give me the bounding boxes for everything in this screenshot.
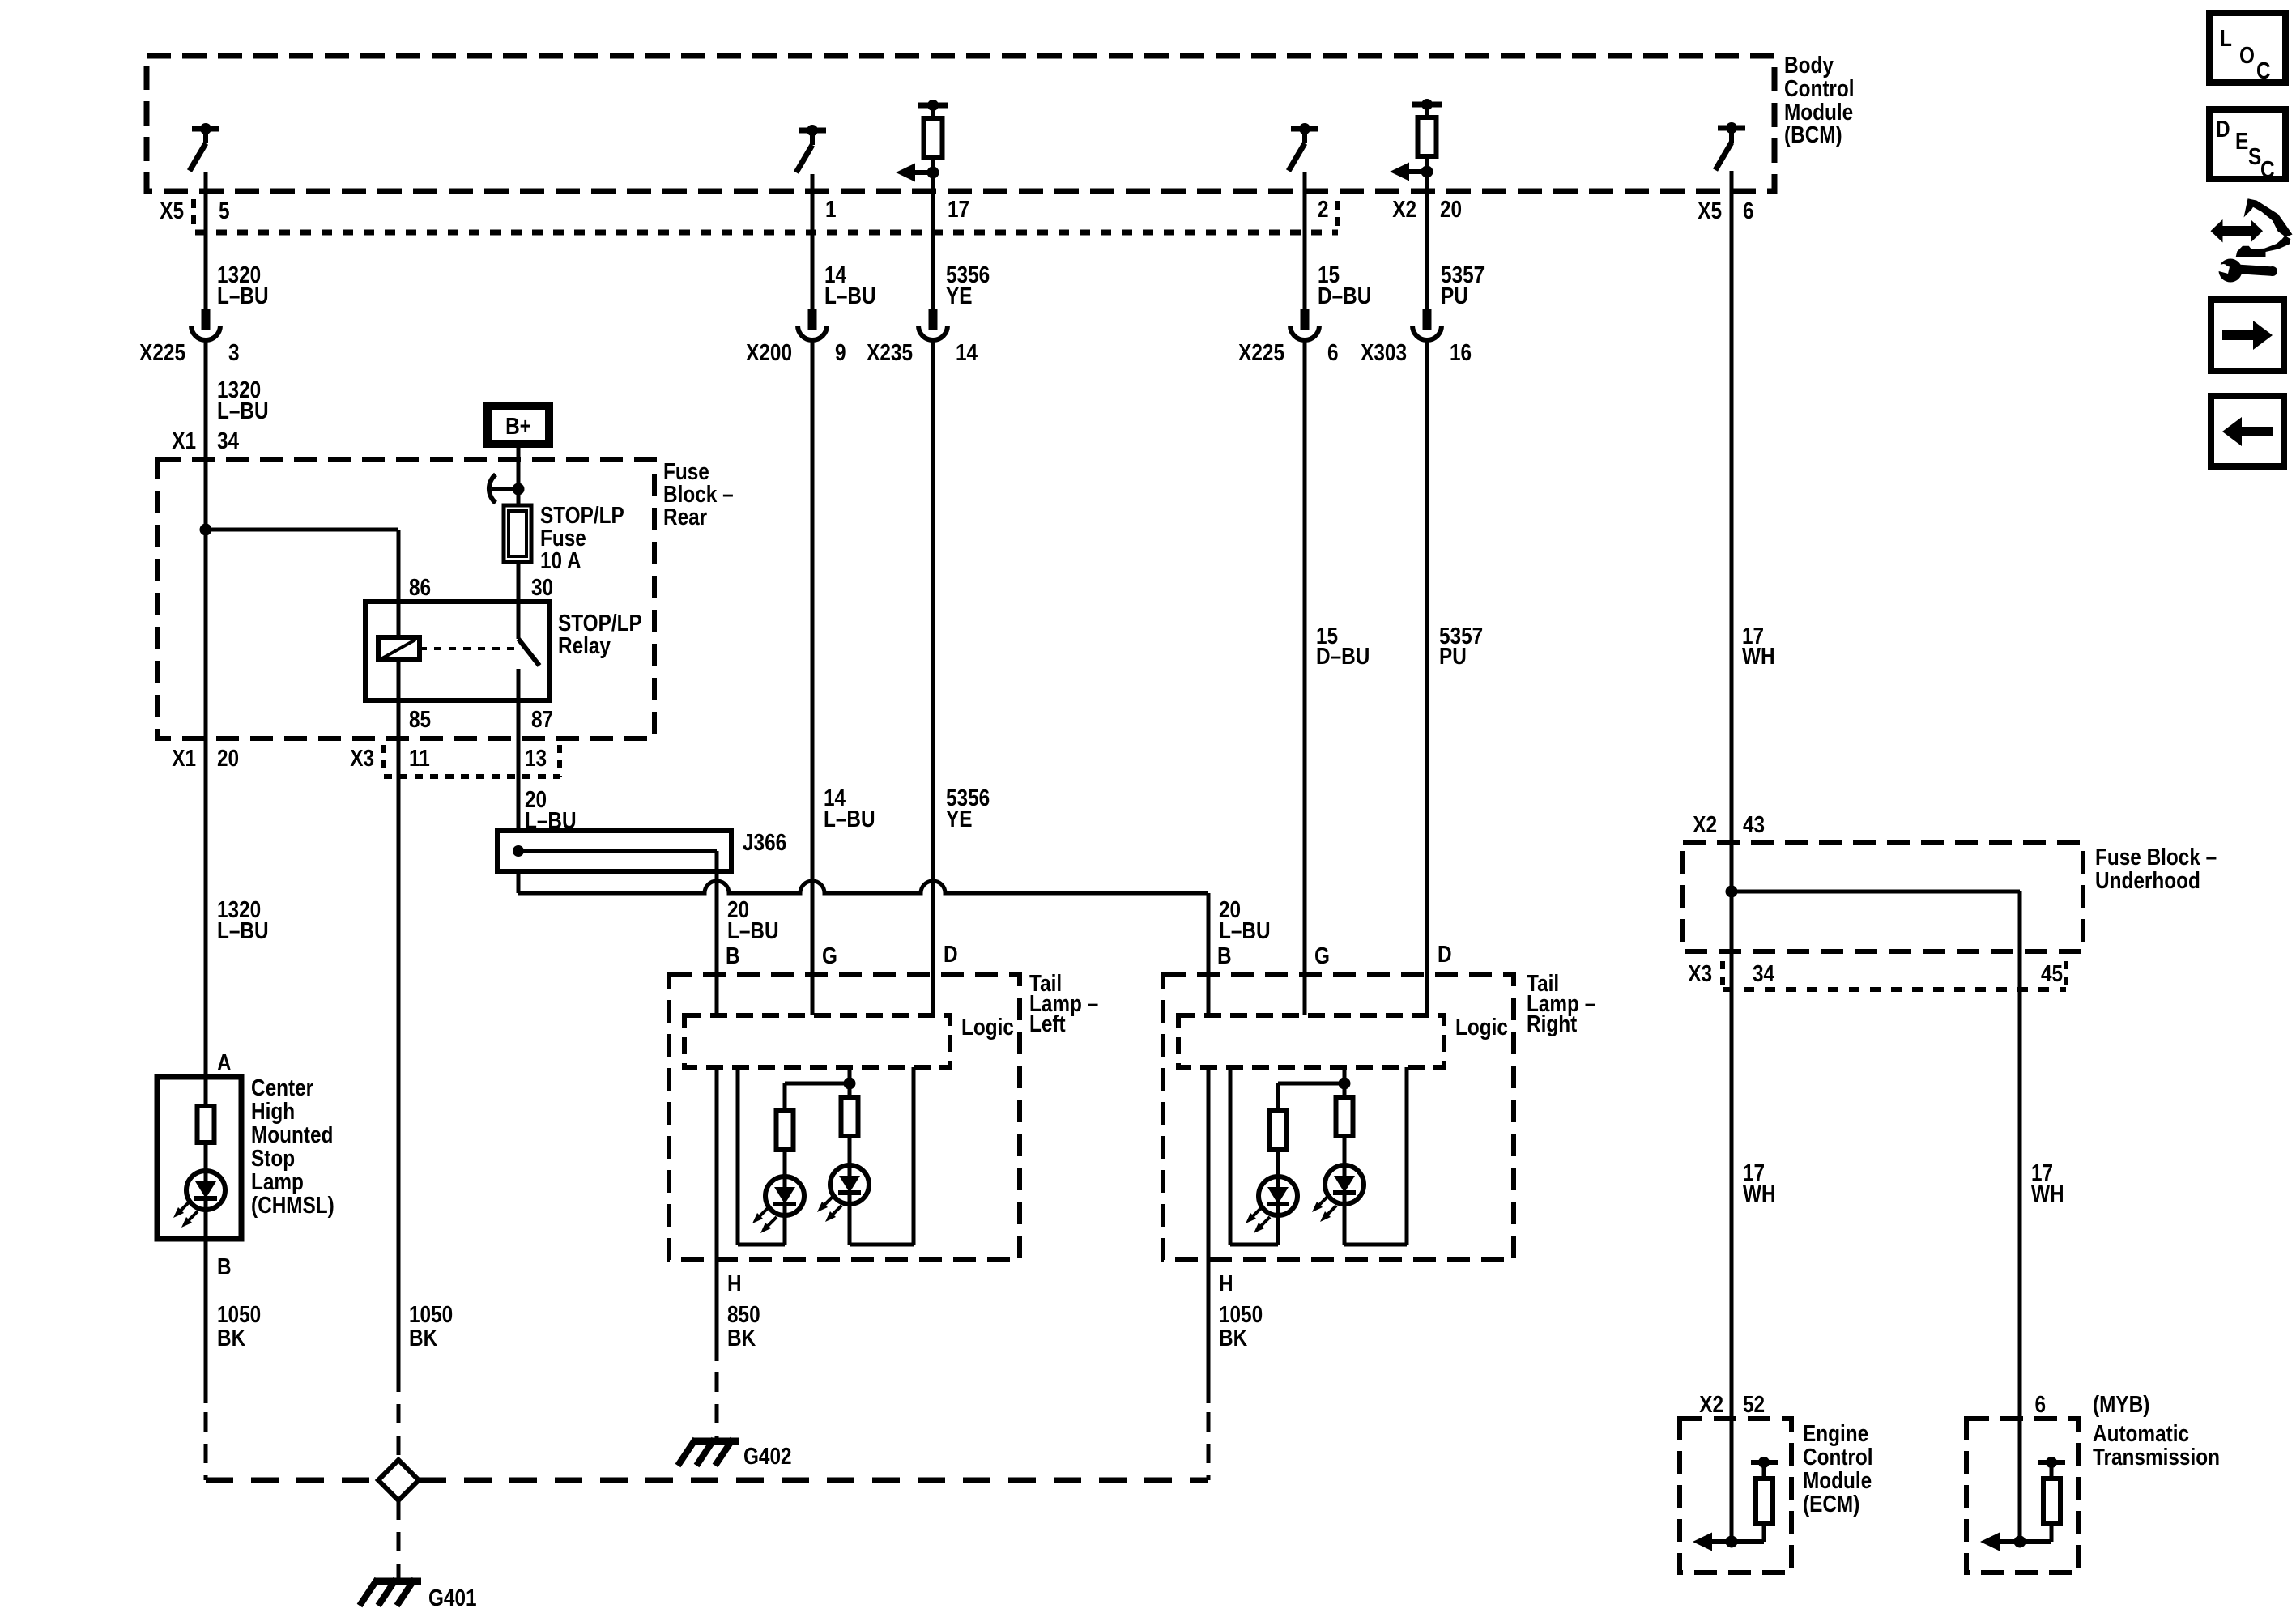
svg-text:Control: Control — [1784, 75, 1855, 101]
wire feed to fuse — [517, 460, 521, 505]
ECM name label — [1803, 1420, 1873, 1517]
wire 14 L-BU X200-9 to left lamp G — [811, 340, 815, 1015]
svg-text:(BCM): (BCM) — [1784, 121, 1842, 147]
wire labels 850 BK — [727, 1301, 760, 1351]
svg-text:L–BU: L–BU — [1219, 917, 1271, 943]
wire labels 1320 L-BU — [217, 262, 269, 309]
switch (stop lamp right control, BCM pin 2) — [1289, 123, 1318, 171]
wire labels 15 D-BU (second) — [1316, 623, 1370, 669]
svg-text:45: 45 — [2041, 960, 2063, 986]
svg-text:J366: J366 — [743, 829, 786, 855]
BCM connector face dotted line — [195, 230, 1338, 236]
wire down to relay 86 — [397, 530, 401, 602]
switch (stop lamp left control, BCM pin 1) — [796, 125, 826, 172]
svg-text:6: 6 — [1327, 339, 1339, 365]
svg-text:52: 52 — [1743, 1391, 1765, 1417]
wire relay 85 to ground (1050 BK) — [397, 700, 401, 1372]
svg-text:1050: 1050 — [409, 1301, 453, 1327]
wire 20 L-BU down to right lamp pin B — [1207, 893, 1211, 1015]
LED CHMSL — [173, 1171, 225, 1228]
svg-text:L–BU: L–BU — [727, 917, 779, 943]
svg-text:YE: YE — [946, 283, 972, 309]
svg-text:L–BU: L–BU — [217, 917, 269, 943]
wire labels 20 L-BU (right lamp B) — [1219, 896, 1271, 943]
svg-text:Center: Center — [251, 1074, 314, 1100]
icon arrow right box — [2211, 300, 2284, 371]
ECM internal pull-up and receiver arrow — [1693, 1457, 1778, 1551]
transmission internal pull-up and receiver arrow — [1980, 1457, 2065, 1551]
svg-text:X200: X200 — [746, 339, 792, 365]
svg-text:X1: X1 — [172, 428, 196, 453]
Fuse Block - Underhood label — [2095, 844, 2217, 893]
svg-text:E: E — [2235, 128, 2248, 154]
junction node (stop signal to relay coil) — [200, 524, 212, 536]
svg-text:14: 14 — [956, 339, 978, 365]
svg-text:WH: WH — [2031, 1181, 2064, 1206]
svg-text:(ECM): (ECM) — [1803, 1491, 1859, 1517]
svg-text:X225: X225 — [1238, 339, 1284, 365]
Fuse Block - Underhood dashed box — [1683, 843, 2083, 951]
wire relay 87 to J366 (20 L-BU) — [517, 700, 521, 831]
LED 2 tail lamp right — [1312, 1165, 1364, 1222]
tail lamp left pin B stub — [715, 893, 719, 1015]
svg-text:(MYB): (MYB) — [2093, 1391, 2149, 1417]
tail lamp right outer box — [1163, 974, 1514, 1260]
svg-text:BK: BK — [1219, 1325, 1248, 1351]
svg-text:13: 13 — [525, 745, 547, 771]
svg-text:L–BU: L–BU — [824, 283, 876, 309]
dashed wire right lamp to ground bus — [1207, 1412, 1211, 1480]
svg-text:Transmission: Transmission — [2093, 1444, 2220, 1470]
svg-text:Control: Control — [1803, 1444, 1873, 1470]
icon DESC box — [2209, 109, 2285, 182]
svg-text:Module: Module — [1803, 1467, 1872, 1493]
tail lamp left outer box — [669, 974, 1020, 1260]
splice pack J366 box — [497, 831, 731, 871]
wire labels 5357 PU — [1441, 262, 1485, 309]
STOP/LP Relay box — [365, 602, 549, 700]
wire labels 5356 YE — [946, 262, 990, 309]
switch (brake apply, BCM pin X5-5) — [190, 123, 219, 171]
dashed wire diamond to G401 — [397, 1500, 401, 1579]
wire labels 17 WH (trans branch) — [2031, 1160, 2064, 1206]
wire 5357 PU X303-16 to right lamp D — [1425, 340, 1429, 1015]
dashed wire relay-85 to splice diamond — [397, 1372, 401, 1457]
svg-text:B: B — [1217, 943, 1232, 968]
svg-text:20: 20 — [1440, 196, 1462, 222]
svg-text:Fuse Block –: Fuse Block – — [2095, 844, 2217, 870]
relay pin labels 85 / 87 — [409, 706, 553, 732]
stop lamp feed wire 20 L-BU to right lamp (hops) — [518, 881, 1208, 893]
transmission pin 6 label — [2034, 1391, 2149, 1417]
svg-text:A: A — [217, 1049, 232, 1075]
svg-text:3: 3 — [228, 339, 240, 365]
wire labels 17 WH (upper) — [1742, 623, 1775, 669]
svg-text:Relay: Relay — [558, 632, 611, 658]
svg-text:1: 1 — [825, 196, 837, 222]
wire fuse to relay pin 30 — [517, 562, 521, 602]
svg-text:X3: X3 — [350, 745, 374, 771]
underhood X3 connector dotted line — [1723, 961, 2066, 989]
J366 internal bus — [513, 845, 717, 857]
CHMSL wire+resistor+LED — [198, 738, 215, 1239]
wire BCM pin1 to X200-9 (14 L-BU) — [811, 174, 815, 311]
wire labels 1050 BK (CHMSL) — [217, 1301, 261, 1351]
connector X225 pin 3 — [191, 309, 220, 340]
svg-text:Engine: Engine — [1803, 1420, 1868, 1446]
svg-text:Right: Right — [1527, 1011, 1577, 1036]
LED 1 tail lamp left — [752, 1177, 804, 1233]
tail lamp right pin B stub — [1207, 893, 1211, 1015]
wire labels 5356 YE (second) — [946, 785, 990, 832]
relay coil-to-switch dashed link — [420, 647, 517, 650]
svg-text:G402: G402 — [743, 1443, 792, 1469]
svg-text:L–BU: L–BU — [217, 283, 269, 309]
ground G402 — [678, 1439, 739, 1466]
svg-text:X303: X303 — [1361, 339, 1407, 365]
Fuse Block - Rear dashed box — [158, 460, 654, 738]
icon arrow left box — [2211, 396, 2284, 466]
svg-text:X225: X225 — [139, 339, 185, 365]
Automatic Transmission dashed box — [1966, 1419, 2078, 1572]
dashed wire to G402 — [715, 1372, 719, 1439]
Tail Lamp - Left name label — [1029, 970, 1098, 1036]
svg-text:850: 850 — [727, 1301, 760, 1327]
svg-text:X2: X2 — [1392, 196, 1416, 222]
svg-text:PU: PU — [1439, 643, 1467, 669]
wire BCM X5-5 to X225-3 (1320 L-BU) — [204, 172, 208, 311]
hot at all times feed symbol — [489, 474, 525, 503]
svg-text:34: 34 — [217, 428, 239, 453]
svg-text:6: 6 — [1743, 198, 1754, 223]
connector X3 pin labels — [350, 745, 547, 771]
wire 5356 YE X235-14 to left lamp D — [931, 340, 935, 1015]
wire labels 20 L-BU (below X3-13) — [525, 786, 577, 833]
wire BCM X2-20 to X303-16 (5357 PU) — [1425, 172, 1429, 311]
wire J366 out bottom — [517, 871, 521, 893]
svg-text:Body: Body — [1784, 52, 1834, 78]
wire labels 14 L-BU — [824, 262, 876, 309]
STOP/LP Relay label — [558, 610, 642, 658]
svg-text:86: 86 — [409, 574, 431, 600]
svg-text:X3: X3 — [1688, 960, 1712, 986]
svg-text:43: 43 — [1743, 811, 1765, 837]
svg-text:X2: X2 — [1693, 811, 1717, 837]
connector X3-34 / X3-45 labels — [1688, 960, 2063, 986]
Fuse Block - Rear label — [663, 458, 734, 530]
wire BCM pin2 to X225-6 (15 D-BU) — [1303, 172, 1307, 311]
svg-text:17: 17 — [948, 196, 969, 222]
switch (stop lamp relay control, BCM pin X5-6) — [1715, 122, 1745, 170]
svg-text:L–BU: L–BU — [824, 806, 875, 832]
svg-text:6: 6 — [2034, 1391, 2046, 1417]
svg-text:G: G — [822, 943, 837, 968]
svg-text:D: D — [1438, 941, 1452, 967]
BCM name label — [1784, 52, 1855, 147]
svg-text:H: H — [1219, 1270, 1233, 1296]
connector X1-20 labels — [172, 745, 239, 771]
LED 2 tail lamp left — [817, 1165, 869, 1222]
ground bus dashed left segment — [206, 1478, 378, 1483]
tail lamp right logic box — [1178, 1015, 1444, 1067]
output driver (BCM pin 17) — [896, 100, 948, 189]
svg-text:YE: YE — [946, 806, 972, 832]
wire 17 WH to automatic transmission — [2018, 891, 2022, 1542]
CHMSL name label — [251, 1074, 334, 1218]
connector X2-52 labels — [1699, 1391, 1765, 1417]
wire branch to X3-45 — [1732, 890, 2020, 894]
svg-text:2: 2 — [1318, 196, 1329, 222]
svg-text:X235: X235 — [867, 339, 913, 365]
wire X225-3 to X1-34 (1320 L-BU) — [204, 340, 208, 460]
svg-text:10 A: 10 A — [540, 547, 581, 573]
wire 20 L-BU left lamp B (below hop) — [715, 893, 719, 1015]
svg-text:1050: 1050 — [1219, 1301, 1263, 1327]
svg-text:Logic: Logic — [1455, 1014, 1508, 1040]
BCM pin number labels — [160, 196, 1753, 223]
wire labels 1050 BK (right lamp) — [1219, 1301, 1263, 1351]
wire labels 20 L-BU (left lamp B) — [727, 896, 779, 943]
svg-text:9: 9 — [835, 339, 846, 365]
Automatic Transmission name label — [2093, 1420, 2220, 1470]
wire labels 14 L-BU (second) — [824, 785, 875, 832]
svg-text:X5: X5 — [160, 198, 184, 223]
relay pin labels 86 / 30 — [409, 574, 553, 600]
STOP/LP Fuse label — [540, 502, 624, 573]
svg-text:G: G — [1314, 943, 1330, 968]
svg-text:(CHMSL): (CHMSL) — [251, 1192, 334, 1218]
svg-text:S: S — [2248, 143, 2261, 169]
svg-text:PU: PU — [1441, 283, 1468, 309]
svg-text:C: C — [2256, 57, 2271, 83]
svg-text:1050: 1050 — [217, 1301, 261, 1327]
wire 1050 BK CHMSL B down — [204, 1239, 208, 1403]
wire 17 WH through underhood block to ECM — [1730, 843, 1734, 1542]
svg-text:X2: X2 — [1699, 1391, 1723, 1417]
wire labels 17 WH (ECM branch) — [1743, 1160, 1776, 1206]
wire labels 1050 BK (relay 85 wire) — [409, 1301, 453, 1351]
relay coil — [378, 602, 420, 700]
svg-text:20: 20 — [217, 745, 239, 771]
svg-text:30: 30 — [531, 574, 553, 600]
svg-text:X5: X5 — [1698, 198, 1722, 223]
wire 850 BK left lamp H to G402 — [715, 1260, 719, 1361]
svg-text:Mounted: Mounted — [251, 1121, 333, 1147]
svg-text:11: 11 — [409, 745, 430, 771]
svg-text:16: 16 — [1450, 339, 1472, 365]
icon LOC box — [2209, 13, 2285, 83]
svg-text:BK: BK — [409, 1325, 438, 1351]
wire inside fuse block (stop lamp feed) — [204, 460, 208, 738]
svg-text:D: D — [944, 941, 958, 967]
Body Control Module (BCM) dashed box — [147, 56, 1774, 191]
wire BCM pin17 to X235-14 (5356 YE) — [931, 172, 935, 311]
svg-text:X1: X1 — [172, 745, 196, 771]
tail lamp left logic box — [684, 1015, 950, 1067]
junction in underhood fuse block — [1726, 886, 1738, 898]
svg-text:C: C — [2260, 156, 2275, 182]
connector X2-43 labels — [1693, 811, 1765, 837]
svg-text:D: D — [2216, 116, 2230, 142]
connector X1-34 labels — [172, 428, 239, 453]
svg-text:Lamp: Lamp — [251, 1168, 304, 1194]
connector X225 pin 6 — [1290, 309, 1319, 340]
svg-text:L: L — [2220, 25, 2232, 51]
Center High Mounted Stop Lamp box — [157, 1077, 241, 1239]
svg-text:85: 85 — [409, 706, 431, 732]
svg-text:Rear: Rear — [663, 504, 708, 530]
B+ battery feed box — [488, 406, 549, 444]
svg-text:B: B — [726, 943, 740, 968]
svg-text:Stop: Stop — [251, 1145, 295, 1171]
connector X303 pin 16 — [1412, 309, 1442, 340]
svg-text:5: 5 — [219, 198, 230, 223]
svg-text:B: B — [217, 1253, 232, 1279]
wire labels 15 D-BU — [1318, 262, 1371, 309]
wire labels 1320 L-BU (third) — [217, 896, 269, 943]
wire labels 5357 PU (second) — [1439, 623, 1483, 669]
wire 1050 BK right lamp H — [1207, 1260, 1211, 1403]
STOP/LP Fuse 10 A — [504, 505, 531, 562]
wire B+ into fuse block — [517, 444, 521, 460]
svg-text:WH: WH — [1743, 1181, 1776, 1206]
svg-text:WH: WH — [1742, 643, 1775, 669]
splice diamond (ground splice) — [378, 1460, 419, 1500]
svg-text:H: H — [727, 1270, 742, 1296]
relay switch — [518, 602, 539, 700]
LED 1 tail lamp right — [1246, 1177, 1297, 1233]
svg-text:D–BU: D–BU — [1318, 283, 1371, 309]
svg-text:G401: G401 — [428, 1585, 477, 1611]
svg-text:87: 87 — [531, 706, 553, 732]
svg-text:O: O — [2239, 42, 2255, 68]
tail lamp left internal circuit — [717, 1067, 914, 1260]
svg-text:High: High — [251, 1098, 295, 1124]
svg-text:Logic: Logic — [961, 1014, 1014, 1040]
svg-text:BK: BK — [727, 1325, 756, 1351]
wire 15 D-BU X225-6 to right lamp G — [1303, 340, 1307, 1015]
dashed wire CHMSL to ground bus — [204, 1412, 208, 1480]
icon vehicle with wrench — [2211, 198, 2293, 282]
wire BCM X5-6 to fuse block underhood (17 WH) — [1730, 171, 1734, 843]
ground G401 — [360, 1579, 421, 1606]
tail lamp right internal circuit — [1208, 1067, 1407, 1260]
ground bus dashed right segment — [419, 1478, 1208, 1483]
wire labels 1320 L-BU (second) — [217, 377, 269, 423]
svg-text:Left: Left — [1029, 1011, 1066, 1036]
svg-text:Underhood: Underhood — [2095, 867, 2200, 893]
output driver (BCM pin X2-20) — [1390, 99, 1442, 188]
wire junction to relay coil pin 86 — [206, 528, 398, 532]
svg-text:34: 34 — [1753, 960, 1774, 986]
svg-text:B+: B+ — [505, 413, 531, 439]
connector X235 pin 14 — [918, 309, 948, 340]
svg-text:D–BU: D–BU — [1316, 643, 1370, 669]
connector separator ticks — [191, 199, 196, 227]
Tail Lamp - Right name label — [1527, 970, 1595, 1036]
svg-text:L–BU: L–BU — [217, 398, 269, 423]
Engine Control Module dashed box — [1680, 1419, 1791, 1572]
connector X200 pin 9 — [798, 309, 827, 340]
connector X3 bracket — [384, 745, 560, 777]
svg-text:BK: BK — [217, 1325, 246, 1351]
svg-text:Automatic: Automatic — [2093, 1420, 2189, 1446]
wire J366 to left lamp pin B — [715, 851, 719, 893]
